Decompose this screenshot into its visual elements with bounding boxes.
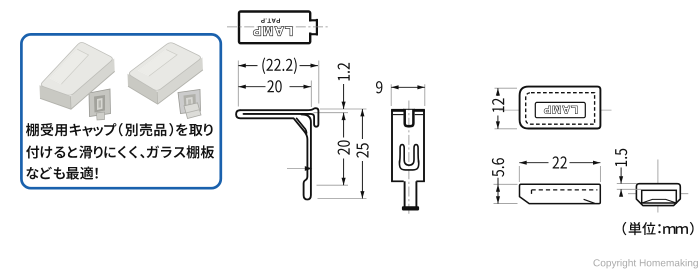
dimension 5.6 (494, 183, 518, 185)
front view: top edge line across notch (403, 108, 415, 110)
cap top view: LAMP stamp text (rotated 180, outline) (544, 106, 577, 113)
caption line 1 (26, 123, 213, 136)
dimension 1.5 (617, 183, 637, 185)
product photo left: cap (40, 42, 115, 109)
front view: stem (404, 181, 406, 206)
dimension 9 (390, 84, 392, 106)
cap side view: outline (520, 184, 601, 203)
cap end view: centerlines (657, 160, 659, 213)
product photo left: bracket (89, 89, 111, 120)
cap end view: outer outline (636, 184, 680, 206)
cap end view: slot bottom chamfers (642, 199, 676, 203)
cap side view: inner corner line (584, 199, 595, 203)
front view: centerline (408, 101, 410, 216)
leader arrow at leg (287, 168, 306, 170)
front view: spring clip (omega) (400, 145, 419, 166)
top view: PAT.P label (rotated 180) (261, 18, 280, 22)
dimension 20 vertical (343, 113, 345, 138)
cap end view: slot opening (642, 190, 677, 203)
top view: bracket body outline (239, 12, 310, 44)
dimension 12 (495, 87, 518, 89)
cap top view: centerline (499, 109, 612, 111)
caption line 3 (26, 167, 97, 180)
top view: centerline (227, 26, 329, 28)
front view: stem foot (402, 206, 419, 210)
side view: extension lines (237, 61, 239, 107)
cap side view: hidden slot line (dashed) (532, 189, 598, 191)
unit note (単位:mm) (623, 222, 694, 235)
dimension (22.2) (238, 65, 257, 67)
dimension 25 (361, 109, 363, 139)
top view: LAMP logo (rotated 180, outline) (253, 27, 292, 36)
dimension 20 horizontal (238, 86, 265, 88)
product photo right: bracket (178, 90, 201, 119)
front view: body bottom (391, 180, 404, 182)
top view: rear tab (308, 22, 313, 33)
front view: under-bar line (393, 114, 404, 116)
dimension 1.2 (343, 84, 345, 109)
side view: profile outline (top sheet and right flap) (240, 108, 318, 127)
side view: gusset fold line (297, 118, 307, 133)
cap top view: outer outline (520, 87, 601, 129)
cap top view: LAMP stamp frame (535, 102, 585, 117)
front view: body sides (391, 110, 393, 181)
front view: top notch (U channel) (405, 109, 414, 126)
info box (blue rounded border) (21, 34, 220, 188)
cap top view: hidden inner edge (dashed) (526, 93, 595, 125)
caption line 2 (26, 145, 214, 158)
front view: top bar (391, 109, 404, 112)
side view: profile outline (outer contour, leg and hook) (236, 110, 311, 199)
copyright text (593, 259, 697, 268)
dimension 22 (518, 166, 520, 182)
product photo right: cap (128, 43, 203, 104)
